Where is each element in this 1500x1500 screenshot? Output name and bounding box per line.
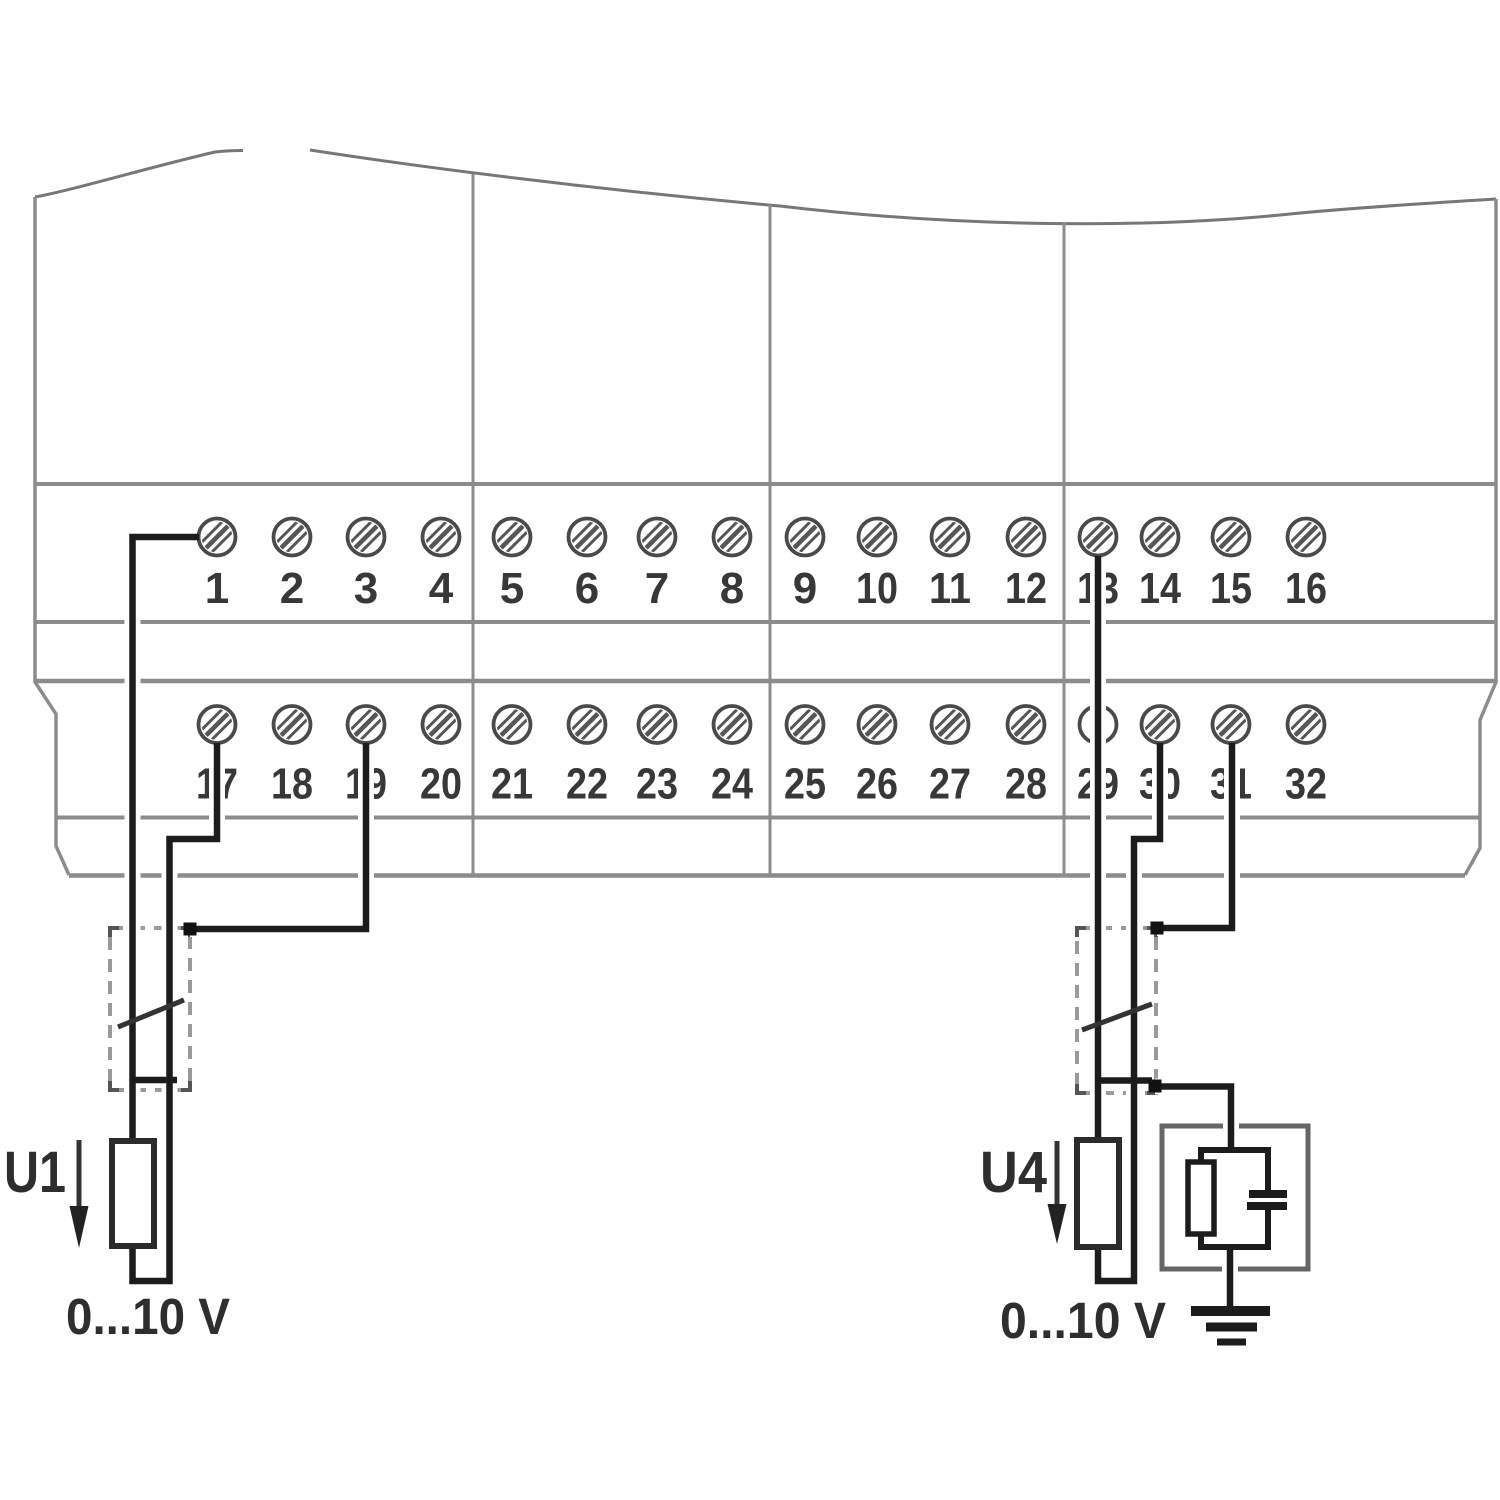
svg-text:23: 23 (636, 760, 678, 809)
svg-text:9: 9 (793, 564, 817, 613)
svg-text:15: 15 (1210, 564, 1252, 613)
svg-text:3: 3 (354, 564, 378, 613)
svg-text:11: 11 (929, 564, 971, 613)
svg-text:7: 7 (645, 564, 669, 613)
svg-text:U1: U1 (4, 1140, 66, 1205)
svg-text:20: 20 (420, 760, 462, 809)
svg-text:18: 18 (271, 760, 313, 809)
svg-text:0...10 V: 0...10 V (66, 1288, 230, 1345)
svg-text:25: 25 (784, 760, 826, 809)
svg-text:22: 22 (566, 760, 608, 809)
svg-text:2: 2 (280, 564, 304, 613)
svg-text:24: 24 (711, 760, 753, 809)
svg-text:4: 4 (429, 564, 454, 613)
svg-text:26: 26 (856, 760, 898, 809)
svg-text:32: 32 (1285, 760, 1327, 809)
svg-text:8: 8 (720, 564, 744, 613)
svg-text:0...10 V: 0...10 V (1000, 1292, 1166, 1349)
svg-text:21: 21 (491, 760, 533, 809)
svg-text:10: 10 (856, 564, 898, 613)
svg-text:12: 12 (1005, 564, 1047, 613)
svg-text:1: 1 (205, 564, 229, 613)
svg-text:28: 28 (1005, 760, 1047, 809)
svg-text:U4: U4 (980, 1140, 1047, 1205)
svg-text:16: 16 (1285, 564, 1327, 613)
svg-text:6: 6 (575, 564, 599, 613)
svg-text:27: 27 (929, 760, 971, 809)
svg-text:14: 14 (1139, 564, 1181, 613)
svg-text:5: 5 (500, 564, 524, 613)
